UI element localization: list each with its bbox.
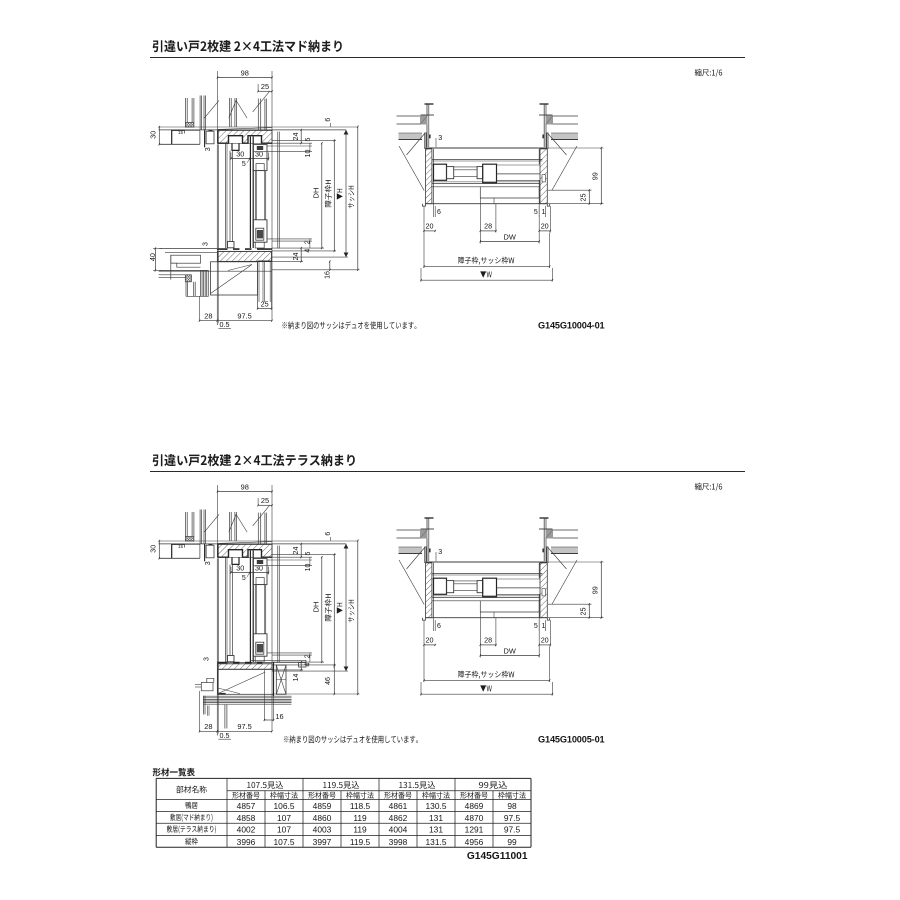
vs1: right dim 10 xyxy=(254,151,312,153)
svg-text:20: 20 xyxy=(541,635,549,644)
svg-text:30: 30 xyxy=(255,150,263,159)
vs2: dimension 98 (head width) xyxy=(218,491,273,493)
svg-text:30: 30 xyxy=(149,131,158,139)
vs1: inner sash top rail xyxy=(253,145,267,171)
vs2: interior casing head detail xyxy=(204,544,206,562)
ps1: right wall lines xyxy=(553,115,578,117)
svg-text:119.5: 119.5 xyxy=(350,837,371,847)
svg-text:6: 6 xyxy=(437,209,441,216)
vs1: head jamb (kamoi) hatched xyxy=(218,130,273,143)
svg-text:98: 98 xyxy=(507,801,517,811)
ps1: left wall hatch block xyxy=(420,116,428,125)
svg-text:5: 5 xyxy=(242,575,246,582)
table header row 2 xyxy=(232,792,259,799)
vs2: right dim 10 xyxy=(254,565,312,567)
svg-text:24: 24 xyxy=(291,133,300,141)
svg-text:16: 16 xyxy=(324,271,331,279)
svg-text:118.5: 118.5 xyxy=(350,801,371,811)
svg-text:4857: 4857 xyxy=(237,801,256,811)
ps1: dim 20 right xyxy=(549,206,551,232)
ps2: dim shoji/sash W xyxy=(423,647,425,683)
vs2: wall studs above head xyxy=(184,512,186,537)
svg-text:4870: 4870 xyxy=(465,813,484,823)
svg-text:131: 131 xyxy=(429,825,443,835)
vs1: sill bottom thick edge xyxy=(258,260,272,262)
ps2: right wall lines xyxy=(553,529,578,531)
title section 1 xyxy=(153,40,342,52)
vs1: right dim 24 sill xyxy=(300,248,302,261)
ps2: head inner double line xyxy=(432,572,543,574)
ps1: interlock left box (outer sash stile) xyxy=(434,164,447,180)
vs1: right dim shoji-waku H xyxy=(333,140,335,251)
vs2: right dim H (filled triangles) xyxy=(345,544,347,671)
scale note 2 xyxy=(695,483,723,491)
svg-text:46: 46 xyxy=(325,677,332,685)
svg-text:28: 28 xyxy=(204,722,212,731)
ps1: frame bottom line xyxy=(426,203,548,205)
table row 鴨居 xyxy=(186,802,198,809)
vs1: right dim 5 xyxy=(268,145,313,147)
ps2: frame bottom line xyxy=(426,617,548,619)
ps2: upper track lines xyxy=(432,578,434,580)
vs1: dimension 98 (head width) xyxy=(218,77,273,79)
svg-text:16: 16 xyxy=(275,712,283,721)
title rule 2 xyxy=(150,471,745,473)
vs1: interior casing line right xyxy=(277,132,279,249)
vs1: bottom dims 28 / 97.5 xyxy=(199,296,201,320)
vs1: interior angle pair xyxy=(225,144,227,248)
svg-text:107: 107 xyxy=(277,825,291,835)
vs2: ledge end stop xyxy=(299,662,307,667)
vs1: furring block below xyxy=(185,275,191,282)
svg-text:40: 40 xyxy=(148,253,157,261)
svg-text:3: 3 xyxy=(205,147,212,151)
vs1: head top line xyxy=(159,129,346,131)
vs2: head top line xyxy=(159,543,346,545)
svg-text:DW: DW xyxy=(504,646,516,655)
svg-text:30: 30 xyxy=(236,564,244,573)
ps2: lower track lines xyxy=(432,595,540,597)
svg-text:24: 24 xyxy=(291,253,300,261)
svg-text:97.5: 97.5 xyxy=(504,813,521,823)
vs2: interior casing line right xyxy=(277,546,279,663)
vs1: inner sash bottom rail xyxy=(253,220,267,242)
ps2: jamb feet xyxy=(422,618,425,620)
ps1: dim 99 right xyxy=(548,147,604,149)
svg-text:106.5: 106.5 xyxy=(274,801,295,811)
svg-text:5: 5 xyxy=(305,551,312,555)
table title xyxy=(153,768,195,777)
ps2: left jamb hatched xyxy=(426,563,432,618)
vs2: dimension 30 left (casing height) xyxy=(158,541,160,558)
svg-text:G145G10005-01: G145G10005-01 xyxy=(538,735,605,745)
scale note 1 xyxy=(695,69,723,77)
vs2: dim 16 bottom (deck step) xyxy=(263,670,265,720)
ps1: right anchor bolt symbol xyxy=(540,103,549,105)
ps1: frame head line xyxy=(426,147,548,149)
vs2: interior casing block top-left xyxy=(172,544,185,558)
vs1: meeting stile (thick) xyxy=(249,137,251,249)
ps2: left jamb fin verticals xyxy=(424,547,426,563)
svg-text:20: 20 xyxy=(426,635,434,644)
svg-text:30: 30 xyxy=(149,545,158,553)
svg-text:99: 99 xyxy=(507,837,517,847)
ps2: glass line right pair xyxy=(497,587,541,589)
title rule 1 xyxy=(150,57,745,59)
ps1: left jamb fin verticals xyxy=(424,133,426,149)
svg-text:25: 25 xyxy=(261,496,269,505)
vs2: right dim 24 head xyxy=(272,556,312,558)
ps2: wall break diagonals xyxy=(407,547,426,570)
ps2: frame head line xyxy=(426,561,548,563)
svg-text:1: 1 xyxy=(542,623,546,630)
vs2: meeting stile (thick) xyxy=(249,551,251,663)
svg-text:6: 6 xyxy=(437,623,441,630)
svg-text:4956: 4956 xyxy=(465,837,484,847)
ps2: right bottom plate band xyxy=(551,547,578,553)
ps1: glass line left pair xyxy=(454,169,477,171)
ps1: dim DW xyxy=(538,206,540,243)
ps1: dim W (triangles) xyxy=(420,268,422,282)
vs2: dim 46 right bottom xyxy=(333,666,335,694)
vs2: outer sash glass xyxy=(229,565,231,656)
vs1: dimension 30 left (casing height) xyxy=(158,127,160,144)
vs1: exterior wall below sill xyxy=(159,247,217,249)
vs1: jamb studs xyxy=(199,96,201,130)
ps1: dim 25 right xyxy=(548,189,592,191)
ps2: dim 28 center xyxy=(479,612,481,658)
svg-text:DW: DW xyxy=(504,232,516,241)
svg-text:0.5: 0.5 xyxy=(220,320,230,329)
svg-text:15: 15 xyxy=(178,544,184,549)
vs1: sill support box xyxy=(211,262,258,295)
svg-text:119: 119 xyxy=(353,825,367,835)
vs2: sheathing lines xyxy=(228,512,230,541)
vs2: right dim DH xyxy=(321,557,323,662)
svg-text:3: 3 xyxy=(438,547,442,556)
svg-text:3: 3 xyxy=(205,561,212,565)
ps2: left anchor bolt symbol xyxy=(425,517,434,519)
svg-text:20: 20 xyxy=(426,221,434,230)
svg-text:4858: 4858 xyxy=(237,813,256,823)
ps2: sill recess xyxy=(480,601,539,612)
ps1: head inner double line xyxy=(432,158,543,160)
vs1: interior wall finish line xyxy=(216,144,218,248)
table row 敷居(テラス納まり) xyxy=(167,825,216,833)
svg-text:25: 25 xyxy=(261,82,269,91)
svg-text:6: 6 xyxy=(325,532,332,536)
title section 2 xyxy=(153,454,355,466)
vs1: dimension 30|30 track spacing xyxy=(230,153,232,159)
vs2: inner sash bottom rail xyxy=(253,634,267,656)
ps2: dim 25 right xyxy=(548,603,592,605)
svg-text:25: 25 xyxy=(578,194,587,202)
svg-text:131: 131 xyxy=(429,813,443,823)
vs2: shim diagonal xyxy=(218,542,273,544)
svg-text:4004: 4004 xyxy=(389,825,408,835)
svg-text:G145G10004-01: G145G10004-01 xyxy=(538,321,605,331)
ps1: left anchor bolt symbol xyxy=(425,103,434,105)
ps1: dim 3 (jamb-wall offset) xyxy=(435,138,437,147)
vs2: right dim sash H xyxy=(357,541,359,694)
svg-text:6: 6 xyxy=(325,118,332,122)
vs2: furring block (cross hatch) xyxy=(185,537,194,542)
svg-text:G145G11001: G145G11001 xyxy=(467,851,528,862)
svg-text:DH: DH xyxy=(311,188,320,199)
svg-text:119: 119 xyxy=(353,813,367,823)
svg-text:28: 28 xyxy=(484,221,492,230)
svg-text:97.5: 97.5 xyxy=(237,312,251,321)
vs1: sheathing lines xyxy=(228,98,230,127)
note 1 xyxy=(282,321,416,329)
vs2: hanging track channel (outer) xyxy=(232,557,239,564)
ps2: left wall hatch block xyxy=(420,530,428,539)
ps2: left bottom plate band xyxy=(399,547,423,553)
svg-text:24: 24 xyxy=(291,547,300,555)
table row 敷居(マド納まり) xyxy=(170,814,212,822)
vs1: interior casing head detail xyxy=(204,130,206,148)
ps1: jamb feet xyxy=(422,204,425,206)
svg-text:4003: 4003 xyxy=(313,825,332,835)
svg-text:3: 3 xyxy=(438,133,442,142)
vs1: extension line right x272 (frame outer face, full height) xyxy=(271,71,273,321)
svg-text:97.5: 97.5 xyxy=(237,722,251,731)
svg-text:99: 99 xyxy=(591,172,600,180)
svg-text:99: 99 xyxy=(591,586,600,594)
vs2: right dim 5 xyxy=(268,559,313,561)
svg-text:3998: 3998 xyxy=(389,837,408,847)
table row 縦枠 xyxy=(185,838,198,845)
vs1: right dim DH xyxy=(321,143,323,248)
vs1: head fixing screw lines xyxy=(257,99,259,130)
vs2: extension line right x272 (frame outer face, full height) xyxy=(271,485,273,731)
svg-text:98: 98 xyxy=(241,482,249,491)
svg-text:10: 10 xyxy=(305,564,312,572)
ps2: dim 20 left xyxy=(423,620,425,646)
ps2: right jamb fin verticals xyxy=(546,547,548,563)
vs1: ceiling line xyxy=(159,126,358,128)
svg-text:30: 30 xyxy=(255,564,263,573)
ps2: dims 5 1 bottom-right xyxy=(538,618,540,631)
ps1: glass line right pair xyxy=(497,173,541,175)
svg-text:10: 10 xyxy=(305,150,312,158)
ps1: dim 28 center xyxy=(479,198,481,244)
vs2: sill top profile thick xyxy=(218,662,263,664)
vs2: jamb studs xyxy=(199,510,201,544)
ps1: left bottom plate band xyxy=(399,133,423,139)
ps1: right wall hatch block xyxy=(546,116,554,125)
svg-text:25: 25 xyxy=(578,608,587,616)
ps2: left wall lines xyxy=(397,529,421,531)
svg-text:97.5: 97.5 xyxy=(504,825,521,835)
ps1: left jamb hatched xyxy=(426,149,432,204)
ps1: dim shoji/sash W xyxy=(423,233,425,269)
vs2: ceiling line xyxy=(159,540,358,542)
vs1: right dim 24 head xyxy=(272,142,312,144)
vs2: right dim shoji-waku H xyxy=(333,554,335,665)
vs2: terrace sill ledge (extends right) xyxy=(251,659,306,661)
vs1: wall studs above head xyxy=(184,98,186,123)
ps2: dim W (triangles) xyxy=(420,682,422,696)
vs2: interior wall finish line xyxy=(216,558,218,662)
ps2: right anchor bolt symbol xyxy=(540,517,549,519)
svg-text:4859: 4859 xyxy=(313,801,332,811)
vs2: head jamb (kamoi) hatched xyxy=(218,544,273,557)
svg-text:4861: 4861 xyxy=(389,801,408,811)
svg-text:3996: 3996 xyxy=(237,837,256,847)
table header row 1 xyxy=(176,786,207,794)
svg-text:1: 1 xyxy=(542,209,546,216)
vs1: dimension 25 (head fix) xyxy=(258,90,272,92)
svg-text:25: 25 xyxy=(261,299,269,308)
ps1: right jamb fin verticals xyxy=(546,133,548,149)
svg-text:4: 4 xyxy=(304,663,311,667)
ps1: lower track lines xyxy=(432,181,540,183)
ps1: left wall lines xyxy=(397,115,421,117)
vs1: furring block (cross hatch) xyxy=(185,123,194,128)
ps2: dim 3 (jamb-wall offset) xyxy=(435,552,437,561)
vs1: head jamb bottom profile (thick) xyxy=(218,136,273,144)
svg-text:107: 107 xyxy=(277,813,291,823)
svg-text:107.5: 107.5 xyxy=(274,837,295,847)
ps1: dim 6 bottom-left xyxy=(433,204,435,217)
vs2: extension line left x217.5 xyxy=(217,485,219,546)
ps2: dim DW xyxy=(538,620,540,657)
svg-text:14: 14 xyxy=(293,674,300,682)
vs2: exterior wall lower (terrace) xyxy=(201,683,213,691)
vs2: bottom dims 28 / 97.5 xyxy=(199,691,201,731)
ps2: interlock left box (outer sash stile) xyxy=(434,578,447,594)
ps1: right jamb hatched xyxy=(540,149,547,204)
ps1: wall break diagonals xyxy=(407,133,426,156)
vs1: shim diagonal xyxy=(218,128,273,130)
svg-text:0.5: 0.5 xyxy=(220,731,230,740)
vs1: right dim H (filled triangles) xyxy=(345,130,347,257)
svg-text:28: 28 xyxy=(204,312,212,321)
vs1: sill front verticals + dim 25 xyxy=(257,261,259,308)
vs2: dimension 25 (head fix) xyxy=(258,504,272,506)
vs2: sill box right edge thick xyxy=(273,662,275,696)
vs1: head jamb left end cap thick xyxy=(217,130,219,143)
vs1: hanging track channel (outer) xyxy=(232,143,239,150)
vs1: dim 16 right bottom xyxy=(329,261,331,269)
vs2: terrace sill hatched strip xyxy=(218,664,272,670)
svg-text:3: 3 xyxy=(204,657,211,661)
svg-text:3: 3 xyxy=(202,242,209,246)
svg-text:5: 5 xyxy=(534,623,538,630)
vs2: interior angle pair xyxy=(225,558,227,662)
ps1: dim 20 left xyxy=(423,206,425,232)
vs2: wall stud pair below deck xyxy=(224,705,226,729)
ps1: dims 5 1 bottom-right xyxy=(538,204,540,217)
svg-text:4860: 4860 xyxy=(313,813,332,823)
vs1: interior casing block top-left xyxy=(172,130,185,144)
ps2: right wall hatch block xyxy=(546,530,554,539)
vs2: insulation diagonals xyxy=(204,514,219,532)
svg-text:98: 98 xyxy=(241,68,249,77)
svg-text:30: 30 xyxy=(236,150,244,159)
vs1: sill top profile thick xyxy=(218,248,273,250)
ps1: interlock center boxes (inner sash stile) xyxy=(477,167,483,179)
svg-text:28: 28 xyxy=(484,635,492,644)
vs2: sill support box xyxy=(218,669,274,694)
note 2 xyxy=(284,735,418,743)
svg-text:5: 5 xyxy=(305,137,312,141)
table grid xyxy=(156,777,531,779)
vs1: right dim sash H xyxy=(357,127,359,270)
ps2: glass line left pair xyxy=(454,583,477,585)
vs2: inner sash top rail xyxy=(253,559,267,585)
svg-text:20: 20 xyxy=(541,221,549,230)
vs2: head jamb bottom profile (thick) xyxy=(218,550,273,558)
vs2: deck joist (wood grain) xyxy=(276,665,286,694)
ps1: right bottom plate band xyxy=(551,133,578,139)
ps2: dim 6 bottom-left xyxy=(433,618,435,631)
ps2: dim 99 right xyxy=(548,561,604,563)
vs2: sill box foot pad xyxy=(219,693,226,695)
ps1: sill recess xyxy=(480,187,539,198)
svg-text:3997: 3997 xyxy=(313,837,332,847)
svg-text:130.5: 130.5 xyxy=(426,801,447,811)
vs1: outer sash glass xyxy=(229,151,231,242)
vs2: head jamb left end cap thick xyxy=(217,544,219,557)
ps2: dim 20 right xyxy=(549,620,551,646)
vs1: extension line left x217.5 xyxy=(217,71,219,132)
svg-text:1291: 1291 xyxy=(465,825,484,835)
svg-text:DH: DH xyxy=(311,602,320,613)
vs1: insulation diagonals xyxy=(204,100,219,118)
svg-text:4862: 4862 xyxy=(389,813,408,823)
svg-text:5: 5 xyxy=(534,209,538,216)
svg-text:4002: 4002 xyxy=(237,825,256,835)
svg-text:4: 4 xyxy=(304,249,311,253)
svg-text:131.5: 131.5 xyxy=(426,837,447,847)
ps2: right jamb hatched xyxy=(540,563,547,618)
vs1: siding below xyxy=(185,282,187,297)
vs1: inner sash glass unit xyxy=(254,171,256,220)
svg-text:4869: 4869 xyxy=(465,801,484,811)
ps2: interlock center boxes (inner sash stile) xyxy=(477,581,483,593)
vs2: head fixing screw lines xyxy=(257,513,259,544)
vs1: sill (shikii) hatched xyxy=(218,251,272,261)
ps1: upper track lines xyxy=(432,164,434,166)
vs2: dimension 30|30 track spacing xyxy=(230,567,232,573)
vs2: outer sash bottom rail xyxy=(228,656,235,662)
svg-text:5: 5 xyxy=(242,161,246,168)
vs2: inner sash glass unit xyxy=(254,585,256,634)
svg-text:15: 15 xyxy=(178,130,184,135)
vs1: dim 40 left xyxy=(153,247,162,249)
vs2: deck boards xyxy=(203,695,292,697)
vs1: stud column below (dense lines) xyxy=(200,270,202,296)
vs2: right dim 14 sill xyxy=(300,662,302,670)
vs1: outer sash bottom rail xyxy=(228,242,235,248)
